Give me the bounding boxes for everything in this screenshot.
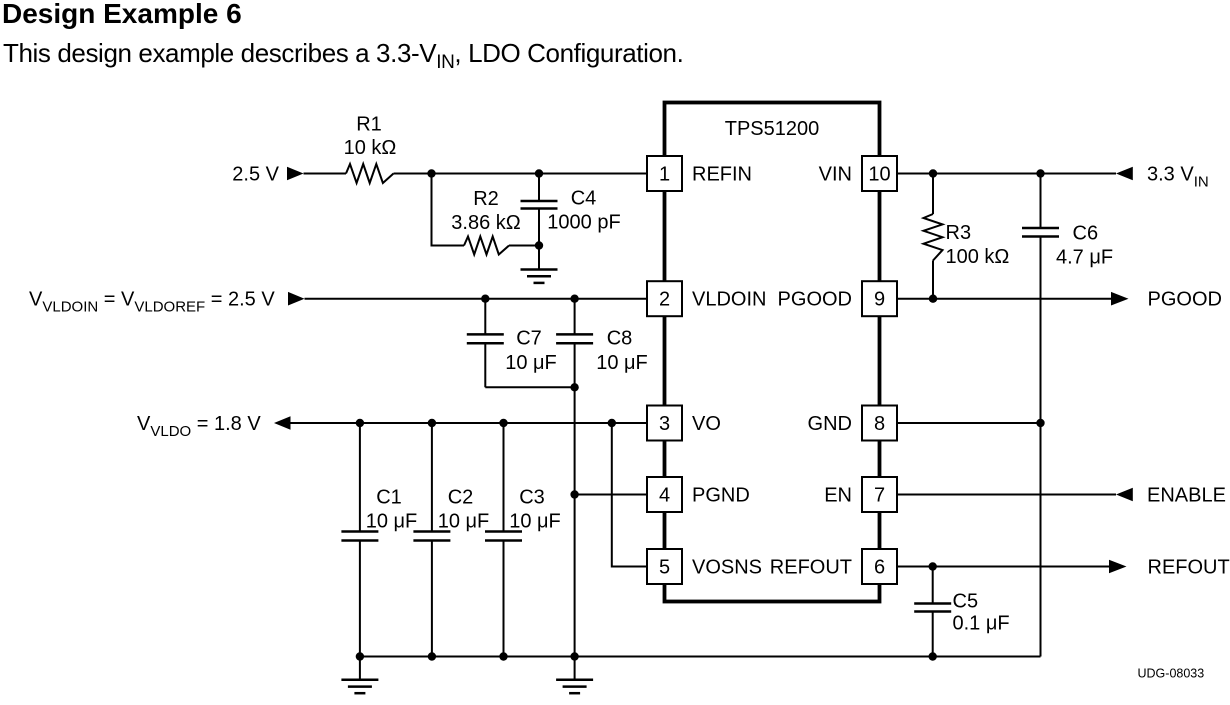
junction C7 top — [481, 295, 489, 303]
resistor R1 — [346, 164, 394, 183]
svg-text:C6: C6 — [1073, 223, 1099, 245]
junction C1 top — [356, 419, 364, 427]
svg-text:7: 7 — [874, 485, 885, 507]
svg-text:VVLDO = 1.8 V: VVLDO = 1.8 V — [137, 413, 261, 440]
wire C7 bottom to C8 column — [485, 386, 574, 388]
svg-text:UDG-08033: UDG-08033 — [1138, 667, 1205, 681]
pin 8 box — [862, 406, 897, 441]
svg-text:PGOOD: PGOOD — [1148, 289, 1222, 311]
pin 9 box — [862, 281, 897, 316]
junction C3 top — [499, 419, 507, 427]
svg-text:1: 1 — [659, 164, 670, 186]
junction R3 bottom on PGOOD wire — [929, 295, 937, 303]
wire REFOUT pin 6 to arrow — [897, 566, 1109, 568]
output arrow VLDO (left) — [274, 416, 291, 430]
capacitor C5 — [914, 567, 951, 657]
wire PGOOD pin 9 to arrow — [897, 298, 1111, 300]
resistor R2 — [464, 237, 509, 255]
svg-text:REFOUT: REFOUT — [770, 557, 852, 579]
ground symbol (left, under C1) — [341, 657, 378, 694]
junction PGND/C8 column — [570, 490, 578, 498]
capacitor C8 — [556, 299, 593, 344]
wire VIN pin 10 to 3.3VIN — [897, 173, 1116, 175]
svg-text:0.1 μF: 0.1 μF — [953, 613, 1010, 635]
svg-text:R2: R2 — [473, 188, 499, 210]
svg-text:6: 6 — [874, 557, 885, 579]
junction C5 top — [929, 562, 937, 570]
wire R2 branch down/left — [432, 174, 465, 246]
svg-text:3: 3 — [659, 413, 670, 435]
junction C5 bottom on rail — [929, 652, 937, 660]
svg-text:10 μF: 10 μF — [509, 511, 561, 533]
junction C3 bottom — [499, 652, 507, 660]
pin 5 box — [647, 549, 682, 584]
junction C4 top — [535, 169, 543, 177]
svg-text:C3: C3 — [519, 487, 545, 509]
junction C1 bottom — [356, 652, 364, 660]
svg-text:R1: R1 — [356, 114, 382, 136]
svg-text:3.3 VIN: 3.3 VIN — [1147, 164, 1209, 191]
wire R1 to pin 1 REFIN — [394, 173, 648, 175]
svg-text:ENABLE: ENABLE — [1147, 485, 1226, 507]
junction VOSNS sense tap — [608, 419, 616, 427]
pin 7 box — [862, 477, 897, 512]
wire PGND pin 4 to C8 column — [575, 494, 647, 496]
svg-text:PGOOD: PGOOD — [778, 289, 852, 311]
junction R3 top — [929, 169, 937, 177]
svg-text:VIN: VIN — [819, 164, 852, 186]
svg-text:10 kΩ: 10 kΩ — [344, 137, 397, 159]
wire ground rail — [360, 656, 1041, 658]
wire VOSNS pin 5 to VLDO rail — [612, 423, 647, 567]
svg-text:This design example describes: This design example describes a 3.3-VIN,… — [3, 38, 683, 73]
svg-text:C7: C7 — [516, 328, 542, 350]
capacitor C2 — [413, 423, 450, 657]
capacitor C7 — [467, 299, 504, 388]
output arrow REFOUT (right-pointing) — [1109, 560, 1127, 574]
svg-text:EN: EN — [824, 485, 852, 507]
junction C8-column bottom — [570, 652, 578, 660]
svg-text:VVLDOIN = VVLDOREF = 2.5 V: VVLDOIN = VVLDOREF = 2.5 V — [29, 289, 275, 316]
svg-text:VOSNS: VOSNS — [692, 557, 762, 579]
svg-text:Design Example 6: Design Example 6 — [2, 0, 242, 29]
svg-text:5: 5 — [659, 557, 670, 579]
ground (below C4/R2) — [521, 246, 558, 283]
capacitor C3 — [485, 423, 522, 657]
svg-text:REFIN: REFIN — [692, 164, 752, 186]
junction C8 top — [570, 295, 578, 303]
svg-text:4: 4 — [659, 485, 670, 507]
junction R2/C4/ground — [535, 241, 543, 249]
svg-text:TPS51200: TPS51200 — [725, 118, 820, 140]
pin 10 box — [862, 156, 897, 191]
svg-text:10 μF: 10 μF — [366, 511, 418, 533]
svg-text:PGND: PGND — [692, 485, 750, 507]
svg-text:10: 10 — [868, 164, 890, 186]
svg-text:1000 pF: 1000 pF — [547, 212, 620, 234]
svg-text:REFOUT: REFOUT — [1148, 557, 1230, 579]
svg-text:C5: C5 — [953, 591, 979, 613]
wire VLDO rail — [291, 422, 648, 424]
wire GND pin 8 to C6 column — [897, 422, 1041, 424]
capacitor C4 — [521, 174, 558, 246]
IC U1 TPS51200 body — [665, 103, 880, 602]
resistor R3 — [924, 174, 943, 299]
svg-text:C4: C4 — [571, 188, 597, 210]
svg-text:10 μF: 10 μF — [505, 352, 557, 374]
svg-text:4.7 μF: 4.7 μF — [1056, 247, 1113, 269]
svg-text:3.86 kΩ: 3.86 kΩ — [451, 212, 520, 234]
svg-text:10 μF: 10 μF — [438, 511, 490, 533]
svg-text:VLDOIN: VLDOIN — [692, 289, 766, 311]
svg-text:VO: VO — [692, 413, 721, 435]
junction C2 bottom — [428, 652, 436, 660]
wire VLDOIN to pin 2 — [305, 298, 648, 300]
wire R2 to C4 bottom node — [509, 245, 539, 247]
svg-text:2.5 V: 2.5 V — [232, 164, 279, 186]
pin 6 box — [862, 549, 897, 584]
svg-text:C1: C1 — [376, 487, 402, 509]
svg-text:8: 8 — [874, 413, 885, 435]
svg-text:GND: GND — [808, 413, 852, 435]
svg-text:R3: R3 — [946, 222, 972, 244]
svg-text:2: 2 — [659, 289, 670, 311]
svg-text:C8: C8 — [607, 328, 633, 350]
junction GND/C6 column — [1036, 419, 1044, 427]
wire C6 down to ground rail corner — [1040, 237, 1042, 657]
junction C7/C8 bottom — [570, 383, 578, 391]
svg-text:9: 9 — [874, 289, 885, 311]
output arrow PGOOD (right-pointing) — [1111, 292, 1129, 306]
input arrow 3.3 VIN (left-pointing) — [1116, 167, 1133, 181]
pin 4 box — [647, 477, 682, 512]
junction C6 top — [1036, 169, 1044, 177]
capacitor C1 — [341, 423, 378, 657]
pin 2 box — [647, 281, 682, 316]
ground symbol (mid, under C8 column) — [556, 657, 593, 694]
svg-text:100 kΩ: 100 kΩ — [946, 246, 1010, 268]
pin 3 box — [647, 406, 682, 441]
wire C8 column down to ground rail — [574, 343, 576, 656]
wire EN pin 7 to arrow — [897, 494, 1116, 496]
svg-text:10 μF: 10 μF — [596, 352, 648, 374]
input arrow VLDOIN — [288, 292, 305, 306]
input arrow ENABLE (left-pointing) — [1116, 488, 1133, 502]
input arrow 2.5 V — [287, 167, 304, 181]
capacitor C6 — [1022, 174, 1059, 237]
junction C2 top — [428, 419, 436, 427]
svg-text:C2: C2 — [448, 487, 474, 509]
wire 2.5V arrow to R1 — [304, 173, 347, 175]
pin 1 box — [647, 156, 682, 191]
junction node R2 tap — [427, 169, 435, 177]
